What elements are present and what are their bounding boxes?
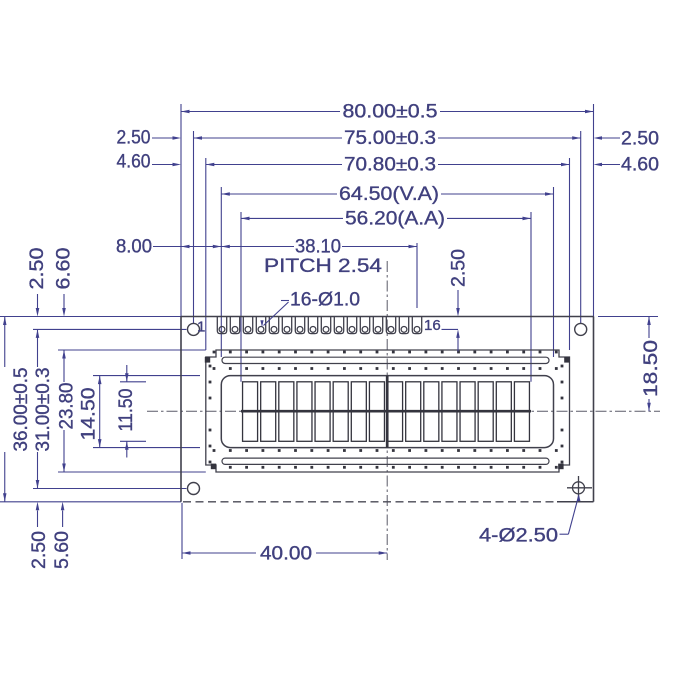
svg-text:56.20(A.A): 56.20(A.A) xyxy=(345,209,445,230)
top rubber strip xyxy=(222,357,549,363)
svg-text:6.60: 6.60 xyxy=(54,248,75,290)
dimension 8.00 xyxy=(153,246,181,248)
dimension 80.00±0.5 xyxy=(181,111,340,113)
extension line left hole up xyxy=(193,131,195,323)
dimension 11.50 xyxy=(126,365,128,382)
PCB top edge xyxy=(181,316,594,318)
extension line window top to left xyxy=(93,375,200,377)
svg-text:80.00±0.5: 80.00±0.5 xyxy=(343,102,438,123)
dimension 23.80 xyxy=(63,350,65,382)
extension line pin16 center xyxy=(416,243,418,308)
svg-text:2.50: 2.50 xyxy=(449,249,470,287)
mounting hole top-right xyxy=(575,323,587,335)
extension line PCB top edge to left xyxy=(0,316,181,318)
character cells 16x2 xyxy=(243,382,530,442)
LCD bezel frame outline xyxy=(206,350,570,472)
svg-text:5.60: 5.60 xyxy=(52,531,73,569)
svg-text:8.00: 8.00 xyxy=(116,237,152,258)
extension line PCB right edge up xyxy=(593,104,595,317)
mounting hole bottom-left xyxy=(188,483,200,495)
extension line PCB top edge to right xyxy=(598,316,658,318)
tick A.A top left xyxy=(120,381,146,383)
extension line bezel right up xyxy=(569,158,571,350)
svg-text:4.60: 4.60 xyxy=(117,152,151,173)
bottom rubber strip xyxy=(222,458,549,464)
svg-text:64.50(V.A): 64.50(V.A) xyxy=(339,184,439,205)
dimension 40.00 xyxy=(182,552,256,554)
extension line 40.00 left xyxy=(181,503,183,559)
dimension 75.00±0.3 xyxy=(194,137,343,139)
extension line left hole center horizontal xyxy=(33,328,187,330)
svg-text:31.00±0.3: 31.00±0.3 xyxy=(33,368,54,452)
dimension 38.10 pin row xyxy=(221,246,294,248)
dimension 14.50 xyxy=(99,376,101,448)
svg-text:2.50: 2.50 xyxy=(29,531,50,569)
svg-text:70.80±0.3: 70.80±0.3 xyxy=(344,155,436,176)
extension line V.A left up xyxy=(220,187,222,357)
mounting hole bottom-right with crosshair xyxy=(567,476,592,500)
svg-text:38.10: 38.10 xyxy=(295,237,341,258)
dimension 36.00±0.5 xyxy=(4,317,6,368)
extension line bezel left up xyxy=(205,158,207,350)
svg-text:18.50: 18.50 xyxy=(641,340,662,397)
dimension 31.00±0.3 xyxy=(37,329,39,367)
extension line right hole up xyxy=(580,131,582,323)
PCB bottom edge dashed xyxy=(183,501,557,503)
svg-text:11.50: 11.50 xyxy=(116,389,137,432)
svg-text:2.50: 2.50 xyxy=(27,248,48,290)
svg-text:4.60: 4.60 xyxy=(621,155,659,176)
mounting hole top-left xyxy=(188,323,200,335)
svg-text:16: 16 xyxy=(424,317,441,334)
vertical centerline xyxy=(386,261,388,560)
extension line bezel bottom to left xyxy=(58,471,206,473)
thick vertical center bar xyxy=(386,376,389,448)
dimension 70.80±0.3 xyxy=(206,164,342,166)
svg-text:40.00: 40.00 xyxy=(260,544,312,565)
PCB bottom edge right solid xyxy=(557,501,594,503)
extension line window bottom to left xyxy=(93,447,200,449)
pin pads 1-16 with holes xyxy=(217,317,421,334)
dimension 56.20 A.A xyxy=(241,217,343,219)
svg-text:36.00±0.5: 36.00±0.5 xyxy=(11,368,32,452)
svg-text:75.00±0.3: 75.00±0.3 xyxy=(344,128,436,149)
svg-text:4-Ø2.50: 4-Ø2.50 xyxy=(479,526,558,547)
dimension 64.50 V.A xyxy=(221,193,337,195)
extension line V.A right up xyxy=(553,187,555,357)
dimension 18.50 xyxy=(648,317,650,339)
tick A.A bottom left xyxy=(120,440,146,442)
display window V.A outline xyxy=(221,376,553,448)
extension line left bottom hole center horizontal xyxy=(33,488,187,490)
svg-text:23.80: 23.80 xyxy=(57,383,78,430)
extension line A.A left up xyxy=(240,212,242,382)
extension line PCB left edge up xyxy=(180,104,182,317)
extension line A.A right up xyxy=(530,212,532,382)
PCB left edge xyxy=(180,317,182,502)
bezel frame dots xyxy=(209,351,564,469)
svg-text:2.50: 2.50 xyxy=(117,128,151,149)
svg-text:16-Ø1.0: 16-Ø1.0 xyxy=(290,290,360,311)
bezel corner tabs xyxy=(205,357,570,469)
horizontal centerline xyxy=(147,410,660,412)
extension line bezel top to left xyxy=(58,349,206,351)
svg-text:PITCH 2.54: PITCH 2.54 xyxy=(264,256,383,277)
thick horizontal center bar xyxy=(241,410,531,413)
extension line PCB bottom edge to left xyxy=(0,501,181,503)
svg-text:14.50: 14.50 xyxy=(79,388,100,441)
svg-text:2.50: 2.50 xyxy=(621,129,659,150)
svg-text:1: 1 xyxy=(197,319,205,336)
PCB right edge xyxy=(593,317,595,502)
